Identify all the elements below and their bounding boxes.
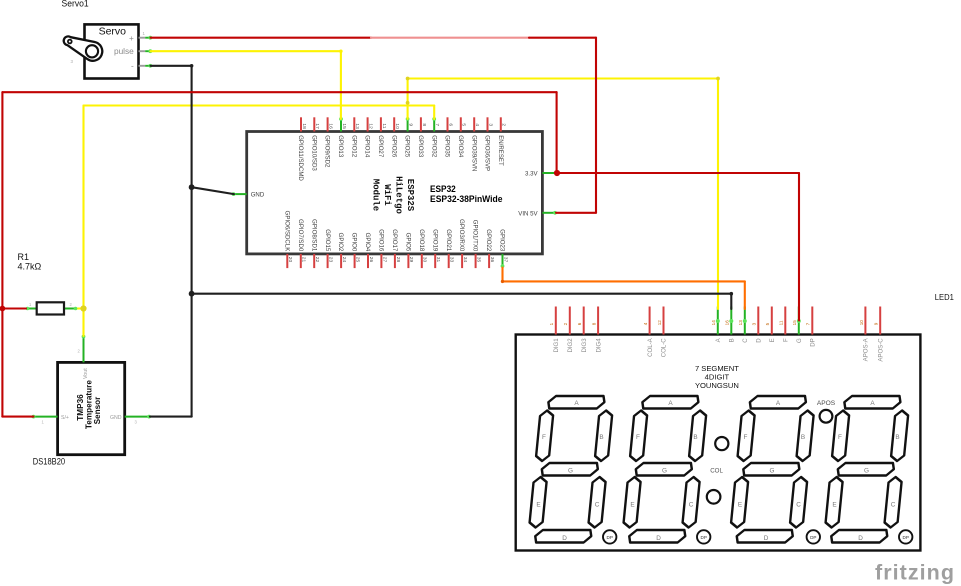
wire yellow R1 junction down to TMP36 Vout	[82, 309, 84, 337]
svg-text:GPIO6/SDCLK: GPIO6/SDCLK	[283, 211, 290, 252]
bend dot yellow crossing	[406, 101, 410, 105]
svg-text:Servo: Servo	[99, 25, 127, 37]
LED digit 2 segments	[622, 396, 708, 543]
svg-text:D: D	[764, 535, 769, 542]
wire red segment into corner down to VIN	[529, 38, 596, 213]
svg-text:3: 3	[752, 322, 757, 325]
junction dot red at R1 left	[0, 306, 5, 312]
svg-text:S/+: S/+	[61, 415, 69, 421]
svg-text:16: 16	[328, 123, 334, 129]
svg-text:DP: DP	[607, 535, 613, 540]
LED display pin 7 DP	[806, 307, 817, 347]
svg-text:GPIO35: GPIO35	[444, 135, 451, 158]
svg-text:GPIO16: GPIO16	[378, 229, 385, 252]
svg-text:A: A	[776, 400, 781, 407]
LED colon circles COL	[707, 437, 729, 504]
IC ESP32 bottom pin 30 GPIO18	[418, 229, 428, 268]
svg-text:F: F	[838, 434, 842, 441]
svg-text:25: 25	[354, 257, 360, 263]
svg-text:33: 33	[449, 257, 455, 263]
LED display pin 14 A	[711, 307, 722, 343]
svg-text:8: 8	[421, 123, 427, 126]
svg-text:GPIO26: GPIO26	[390, 135, 397, 158]
fritzing watermark	[875, 561, 954, 585]
svg-text:R1: R1	[18, 252, 30, 262]
LED display pin 13 C	[738, 307, 749, 343]
svg-text:DP: DP	[903, 535, 909, 540]
sensor pin stub GND	[125, 415, 151, 419]
IC ESP32 bottom pin 31 GPIO19	[431, 229, 441, 268]
IC ESP32 top pin 18 GPIO11/SDCMD	[297, 117, 307, 181]
svg-text:A: A	[574, 400, 579, 407]
junction dot black at display B branch	[189, 291, 195, 297]
svg-text:G: G	[796, 338, 803, 343]
svg-text:3: 3	[487, 123, 493, 126]
sensor pin stub S/+	[32, 415, 58, 419]
LED digit 4 decimal point DP	[899, 530, 912, 543]
svg-text:G: G	[662, 467, 667, 474]
svg-text:37: 37	[502, 257, 508, 263]
svg-text:E: E	[536, 502, 540, 509]
svg-text:GPIO5: GPIO5	[405, 233, 412, 252]
svg-text:E: E	[630, 502, 634, 509]
servo pin label plus	[129, 33, 134, 43]
IC ESP32 top pin 2 EN/RESET	[497, 117, 507, 166]
svg-text:C: C	[796, 502, 801, 509]
IC ESP32 bottom pin 36 GPIO22	[485, 229, 495, 268]
svg-text:-: -	[131, 61, 134, 71]
bend dot black servo minus corner	[190, 64, 194, 68]
IC ESP32 top pin 9 GPIO25	[404, 117, 414, 158]
svg-text:EN/RESET: EN/RESET	[497, 135, 504, 166]
LED display pin 10 APOS-A	[859, 307, 870, 362]
IC ESP32 top pin 17 GPIO10/SD3	[310, 117, 320, 171]
IC ESP32 left pin GND	[232, 192, 265, 199]
svg-text:F: F	[744, 434, 748, 441]
svg-text:D: D	[562, 535, 567, 542]
wire red 3.3V to display G pin	[557, 173, 799, 321]
LED display pin 12 COL-C	[657, 307, 668, 358]
svg-text:APOS-A: APOS-A	[863, 337, 870, 361]
svg-text:11: 11	[381, 123, 387, 128]
IC ESP32 titles	[430, 184, 503, 204]
svg-text:HiLetgo: HiLetgo	[394, 176, 404, 214]
svg-text:F: F	[783, 338, 790, 342]
IC ESP32 bottom pin 27 GPIO16	[378, 229, 388, 268]
IC ESP32 bottom pin 25 GPIO0	[351, 233, 361, 268]
svg-text:5: 5	[461, 123, 467, 126]
servo pin label pulse	[114, 46, 134, 56]
svg-text:7: 7	[806, 322, 811, 325]
svg-text:E: E	[769, 338, 776, 342]
wire yellow R1 junction to GPIO32	[84, 106, 435, 309]
IC ESP32 top pin 13 GPIO12	[350, 117, 360, 158]
svg-text:30: 30	[422, 257, 428, 263]
LED digit 3 segments	[729, 396, 815, 543]
svg-text:GPIO11/SDCMD: GPIO11/SDCMD	[297, 135, 304, 181]
svg-text:GPIO2: GPIO2	[337, 233, 344, 252]
svg-text:27: 27	[381, 257, 387, 263]
svg-text:20: 20	[287, 257, 293, 263]
svg-text:28: 28	[395, 257, 401, 263]
svg-text:10: 10	[859, 320, 864, 326]
LED display LED1 body	[516, 335, 921, 551]
svg-text:GPIO8/SD1: GPIO8/SD1	[310, 219, 317, 252]
sensor pin label GND	[110, 415, 122, 421]
svg-text:GPIO13: GPIO13	[337, 135, 344, 158]
IC ESP32 top pin 8 GPIO33	[417, 117, 427, 158]
resistor pin numbers	[29, 302, 73, 307]
IC ESP32 right pin 3.3V	[525, 171, 556, 178]
svg-text:Vout: Vout	[83, 368, 89, 379]
svg-text:DIG1: DIG1	[553, 338, 560, 353]
svg-text:B: B	[895, 434, 899, 441]
svg-text:18: 18	[301, 123, 307, 129]
svg-text:YOUNGSUN: YOUNGSUN	[695, 381, 739, 390]
svg-text:31: 31	[435, 257, 441, 263]
svg-text:22: 22	[314, 257, 320, 263]
IC ESP32 top pin 3 GPIO36/SVP	[484, 117, 494, 171]
svg-text:B: B	[801, 434, 805, 441]
IC ESP32 top pin 12 GPIO14	[364, 117, 374, 158]
IC ESP32 bottom pin 23 GPIO15	[324, 229, 334, 268]
svg-text:GPIO4: GPIO4	[364, 233, 371, 252]
IC ESP32 bottom pin 22 GPIO8/SD1	[310, 219, 320, 268]
LED display pin 4 COL-A	[643, 307, 654, 357]
svg-text:17: 17	[314, 123, 320, 129]
IC ESP32 top pin 5 GPIO34	[457, 117, 467, 158]
svg-text:GPIO27: GPIO27	[377, 135, 384, 158]
svg-text:A: A	[870, 400, 875, 407]
svg-text:GPIO23: GPIO23	[499, 229, 506, 252]
svg-text:GPIO19: GPIO19	[431, 229, 438, 252]
svg-text:DIG4: DIG4	[595, 338, 602, 353]
IC ESP32 bottom pin 37 GPIO23	[499, 229, 509, 268]
svg-text:GPIO7/SD0: GPIO7/SD0	[297, 219, 304, 252]
IC ESP32 top pin 6 GPIO35	[444, 117, 454, 158]
svg-text:GPIO17: GPIO17	[391, 229, 398, 252]
sensor label DS18B20	[33, 456, 65, 466]
svg-text:D: D	[756, 338, 763, 343]
LED display label LED1	[935, 292, 954, 302]
servo pin number 1	[143, 31, 146, 36]
IC ESP32 top pin 10 GPIO26	[390, 117, 400, 158]
svg-text:D: D	[656, 535, 661, 542]
svg-text:6: 6	[577, 322, 582, 325]
svg-text:DIG2: DIG2	[567, 338, 574, 353]
bend dot black display B corner	[730, 292, 734, 296]
svg-text:D: D	[858, 535, 863, 542]
svg-text:WiFi: WiFi	[382, 184, 392, 206]
svg-text:12: 12	[657, 320, 662, 326]
svg-text:35: 35	[476, 257, 482, 263]
svg-text:GPIO33: GPIO33	[417, 135, 424, 158]
svg-text:LED1: LED1	[935, 292, 954, 302]
svg-text:26: 26	[368, 257, 374, 263]
junction dot yellow at R1 right	[80, 305, 86, 311]
svg-text:2: 2	[563, 322, 568, 325]
IC ESP32 bottom pin 28 GPIO17	[391, 229, 401, 268]
svg-text:GPIO0: GPIO0	[351, 233, 358, 252]
LED digit 3 decimal point DP	[807, 530, 820, 543]
svg-text:GPIO1/TX0: GPIO1/TX0	[472, 220, 479, 252]
IC ESP32 top pin 15 GPIO13	[337, 117, 347, 158]
svg-text:A: A	[668, 400, 673, 407]
svg-text:Servo1: Servo1	[62, 0, 89, 8]
svg-text:B: B	[599, 434, 603, 441]
resistor R1 labels	[18, 252, 42, 272]
sensor TMP36 body DS18B20	[58, 362, 125, 454]
svg-text:B: B	[729, 338, 736, 342]
svg-text:DP: DP	[810, 338, 817, 346]
LED display pin 9 APOS-C	[874, 307, 885, 362]
svg-text:ESP32-38PinWide: ESP32-38PinWide	[430, 193, 503, 204]
LED apostrophe circle APOS	[817, 400, 836, 422]
svg-text:29: 29	[408, 257, 414, 263]
svg-text:VIN 5V: VIN 5V	[518, 210, 538, 217]
LED display pin 11 F	[779, 307, 790, 343]
sensor pin stub Vout	[82, 335, 86, 363]
IC ESP32 bottom pin 24 GPIO2	[337, 233, 347, 268]
svg-text:16: 16	[725, 320, 730, 326]
wire red servo plus to ESP32 VIN	[151, 37, 372, 39]
LED digit 2 decimal point DP	[697, 530, 710, 543]
LED digit 1 decimal point DP	[603, 530, 616, 543]
svg-text:14: 14	[711, 320, 716, 326]
servo pin label minus	[131, 61, 134, 71]
IC ESP32 top pin 11 GPIO27	[377, 117, 387, 158]
svg-text:E: E	[832, 502, 836, 509]
servo horn	[64, 36, 103, 60]
IC ESP32 top pin 7 GPIO32	[430, 117, 440, 158]
wire yellow GPIO25 branch to display A	[408, 79, 718, 310]
bend dot orange corner	[501, 280, 504, 283]
svg-text:C: C	[689, 502, 694, 509]
IC ESP32 top pin 4 GPIO39/SVN	[470, 117, 480, 171]
svg-text:APOS: APOS	[817, 400, 836, 407]
svg-text:15: 15	[792, 320, 797, 326]
servo pin stub pulse	[139, 49, 153, 53]
svg-text:5: 5	[765, 322, 770, 325]
svg-text:DS18B20: DS18B20	[33, 456, 65, 466]
IC ESP32 bottom pin 35 GPIO1/TX0	[472, 220, 482, 268]
svg-text:GND: GND	[110, 415, 122, 421]
servo U Servo1 body	[85, 24, 139, 78]
svg-text:APOS-C: APOS-C	[877, 338, 884, 362]
IC ESP32 bottom pin 21 GPIO7/SD0	[297, 219, 307, 268]
wire black servo minus down left rail to TMP36 GND	[150, 66, 192, 417]
svg-text:G: G	[568, 467, 573, 474]
svg-text:9: 9	[408, 123, 414, 126]
svg-text:ESP32S: ESP32S	[405, 179, 415, 212]
bend dot yellow display A corner	[716, 77, 720, 81]
LED display pin 6 DIG3	[577, 307, 588, 353]
LED display pin 1 DIG1	[549, 307, 560, 353]
svg-text:GPIO10/SD3: GPIO10/SD3	[310, 135, 317, 171]
svg-text:GPIO18: GPIO18	[418, 229, 425, 252]
svg-text:pulse: pulse	[114, 46, 134, 56]
IC ESP32 bottom pin 26 GPIO4	[364, 233, 374, 268]
svg-text:GPIO12: GPIO12	[350, 135, 357, 158]
svg-text:1: 1	[549, 322, 554, 325]
svg-text:10: 10	[394, 123, 400, 129]
svg-text:B: B	[693, 434, 697, 441]
sensor TMP36 rotated title	[76, 380, 102, 429]
svg-text:DP: DP	[810, 535, 816, 540]
wire black branch to ESP32 GND	[192, 187, 234, 194]
LED display pin 15 G	[792, 307, 803, 344]
sensor pin numbers	[42, 349, 138, 425]
wire light-red segment servo plus	[370, 37, 530, 39]
svg-text:GPIO22: GPIO22	[485, 229, 492, 252]
IC ESP32 bottom pin 34 GPIO3/RX0	[458, 219, 468, 268]
svg-text:COL-C: COL-C	[661, 338, 668, 358]
LED display pin 3 D	[752, 307, 763, 343]
bend dot yellow GPIO25 corner	[406, 77, 410, 81]
svg-text:GPIO34: GPIO34	[457, 135, 464, 158]
svg-text:23: 23	[328, 257, 334, 263]
svg-text:GPIO21: GPIO21	[445, 229, 452, 252]
IC ESP32 top pin 16 GPIO9/SD2	[324, 117, 334, 168]
servo label Servo1	[62, 0, 89, 8]
svg-text:F: F	[636, 434, 640, 441]
IC ESP32 bottom pin 33 GPIO21	[445, 229, 455, 268]
svg-text:G: G	[770, 467, 775, 474]
svg-text:34: 34	[462, 257, 468, 263]
junction dot black at ESP32 GND branch	[189, 184, 195, 190]
svg-text:GPIO32: GPIO32	[430, 135, 437, 158]
svg-text:6: 6	[447, 123, 453, 126]
svg-text:C: C	[891, 502, 896, 509]
wire red left vertical rail	[1, 92, 3, 416]
LED display pin 5 E	[765, 307, 776, 343]
svg-text:DIG3: DIG3	[581, 338, 588, 353]
svg-text:fritzing: fritzing	[875, 561, 954, 585]
IC ESP32 rotated module text	[371, 176, 416, 214]
svg-text:13: 13	[738, 320, 743, 326]
servo pin stub minus	[139, 64, 153, 68]
svg-text:GPIO25: GPIO25	[404, 135, 411, 158]
svg-text:GPIO15: GPIO15	[324, 229, 331, 252]
IC ESP32 body	[247, 132, 543, 254]
svg-text:+: +	[129, 33, 134, 43]
wire red 3.3V rail horizontal	[2, 91, 556, 93]
svg-text:4.7kΩ: 4.7kΩ	[18, 262, 42, 272]
svg-text:GPIO3/RX0: GPIO3/RX0	[458, 219, 465, 252]
resistor R1 body	[37, 302, 64, 314]
servo pin stub plus	[139, 36, 153, 40]
svg-text:2: 2	[501, 123, 507, 126]
svg-text:9: 9	[874, 322, 879, 325]
bend dot yellow pulse corner	[339, 50, 342, 53]
svg-text:DP: DP	[701, 535, 707, 540]
svg-text:Sensor: Sensor	[93, 396, 102, 425]
svg-text:GPIO36/SVP: GPIO36/SVP	[484, 135, 491, 171]
sensor pin label Vout	[83, 368, 89, 379]
svg-text:11: 11	[779, 320, 784, 325]
svg-text:4: 4	[474, 123, 480, 126]
svg-text:7: 7	[434, 123, 440, 126]
junction dot red at 3.3V pin	[554, 170, 560, 176]
svg-text:F: F	[542, 434, 546, 441]
svg-text:8: 8	[592, 322, 597, 325]
LED display title	[695, 364, 739, 390]
svg-text:3.3V: 3.3V	[525, 171, 538, 178]
wire red to R1 left lead	[2, 307, 26, 309]
LED digit 1 segments	[528, 396, 614, 543]
svg-text:E: E	[738, 502, 742, 509]
svg-text:12: 12	[368, 123, 374, 129]
svg-text:GND: GND	[251, 192, 265, 199]
svg-text:GPIO9/SD2: GPIO9/SD2	[324, 135, 331, 168]
svg-text:13: 13	[354, 123, 360, 129]
wire red to TMP36 S/+ pin	[2, 416, 33, 418]
resistor R1 leads	[25, 307, 84, 311]
IC ESP32 bottom pin 29 GPIO5	[405, 233, 415, 268]
sensor pin label S/+	[61, 415, 69, 421]
svg-text:GPIO14: GPIO14	[364, 135, 371, 158]
svg-text:C: C	[742, 338, 749, 343]
svg-text:G: G	[864, 467, 869, 474]
svg-text:4: 4	[643, 322, 648, 325]
LED digit 4 segments	[824, 396, 910, 543]
wire yellow servo pulse to GPIO13	[151, 51, 341, 119]
svg-text:GPIO39/SVN: GPIO39/SVN	[470, 135, 477, 171]
svg-text:21: 21	[301, 257, 307, 263]
svg-text:15: 15	[341, 123, 347, 129]
IC ESP32 bottom pin 20 GPIO6/SDCLK	[283, 211, 293, 268]
servo pin number 3	[71, 59, 74, 64]
svg-text:36: 36	[489, 257, 495, 263]
LED display pin 16 B	[725, 307, 736, 343]
svg-text:COL-A: COL-A	[647, 337, 654, 357]
LED display pin 2 DIG2	[563, 307, 574, 353]
LED display pin 8 DIG4	[592, 307, 603, 353]
svg-text:COL: COL	[710, 468, 723, 475]
svg-text:24: 24	[341, 257, 347, 263]
svg-text:C: C	[595, 502, 600, 509]
wire red 3.3V rail drop to ESP32 3.3V pin	[556, 92, 558, 173]
svg-text:Module: Module	[371, 179, 381, 211]
wire black branch to display B	[192, 294, 732, 309]
wire orange GPIO23 to display C	[503, 268, 745, 310]
IC ESP32 right pin VIN 5V	[518, 210, 557, 217]
